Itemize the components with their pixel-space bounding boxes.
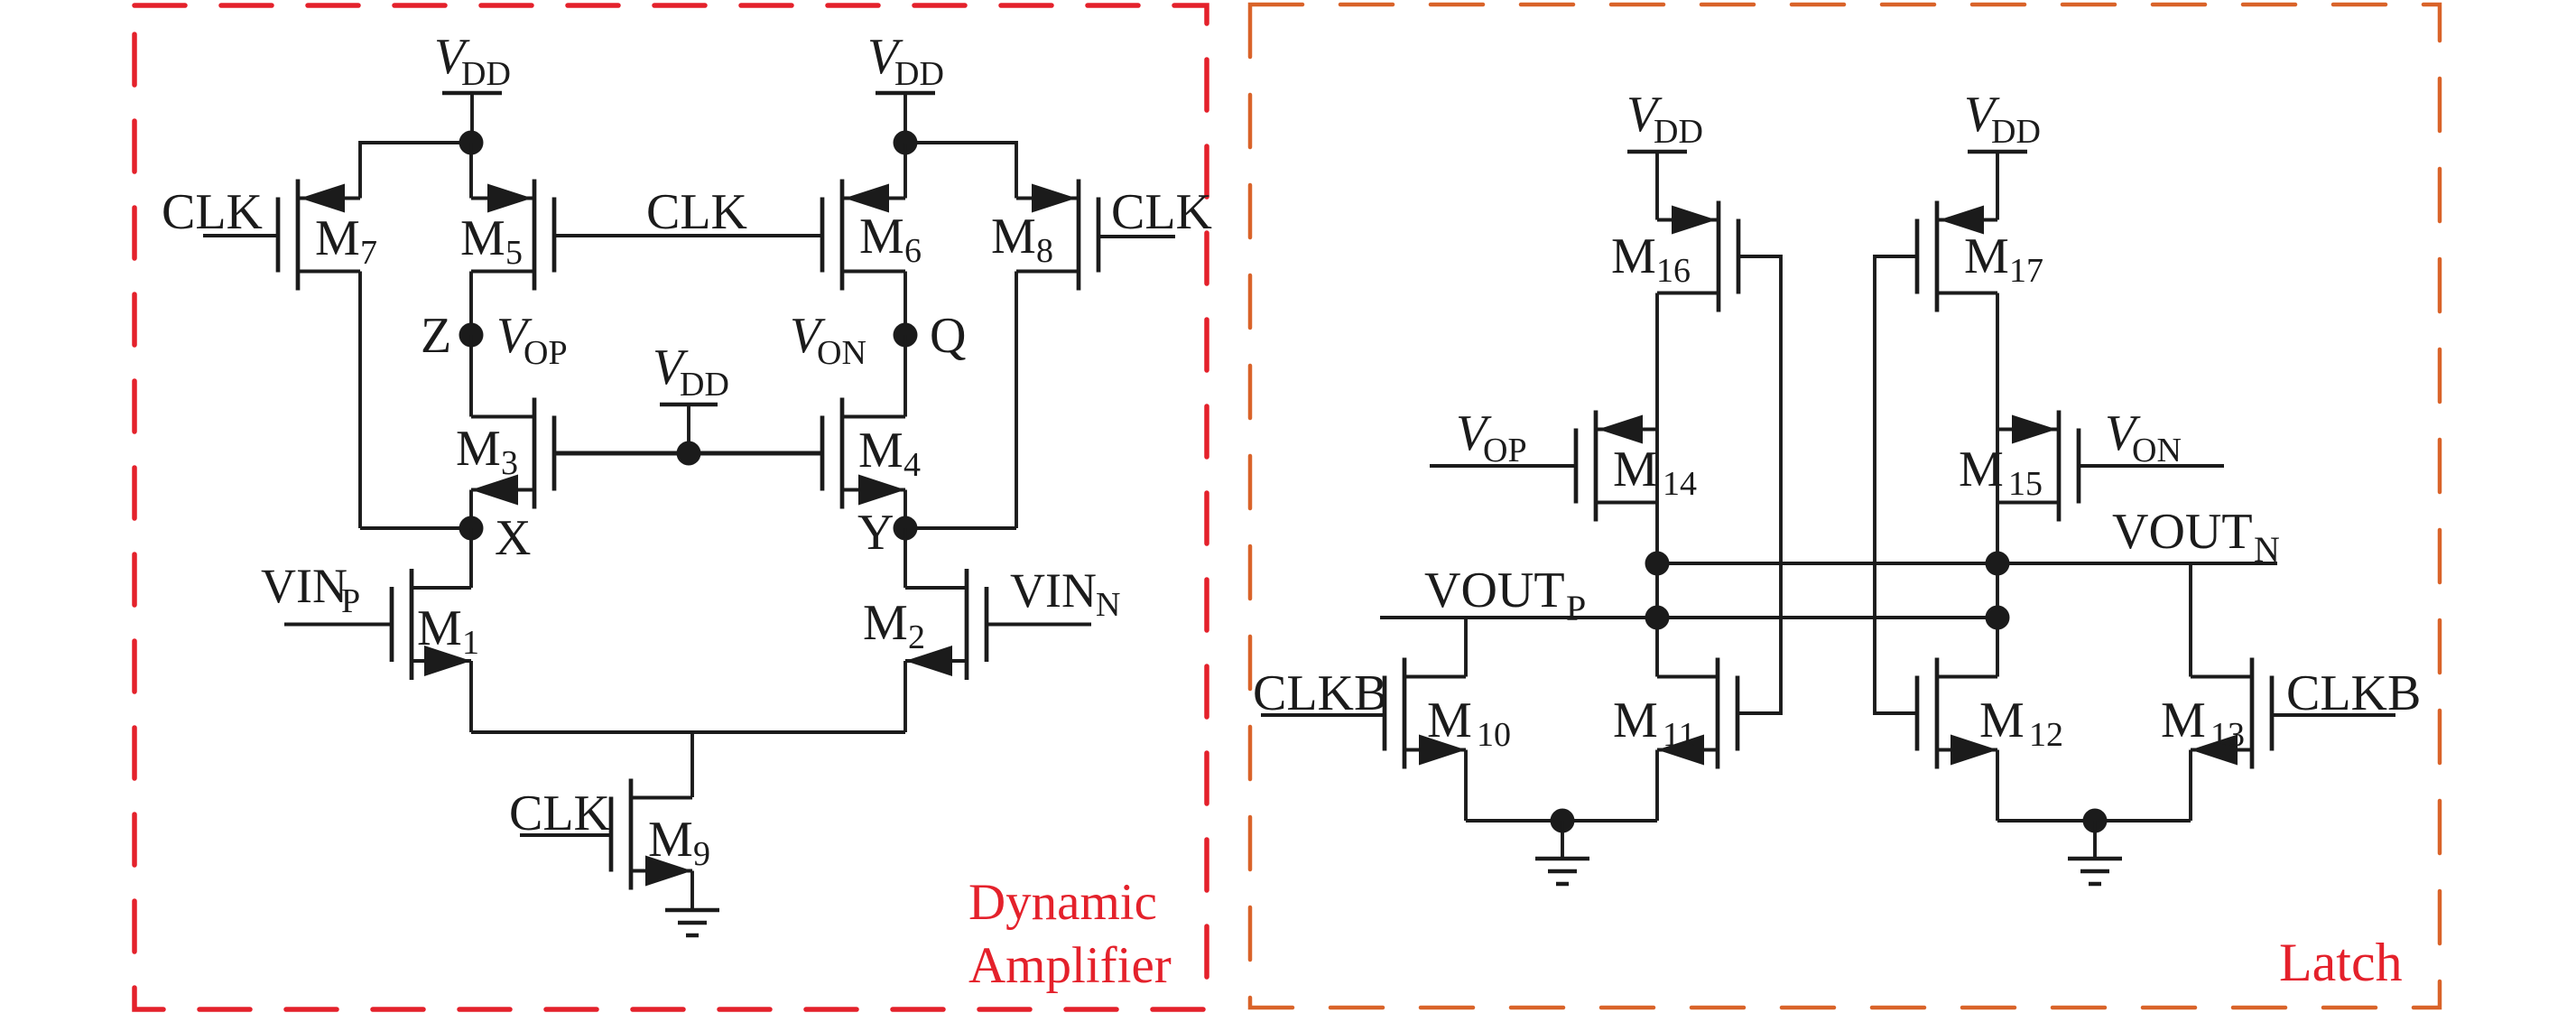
wire M5 gate to M6 gate [554, 234, 822, 237]
svg-text:ON: ON [817, 334, 866, 372]
transistor M14 [1576, 411, 1657, 522]
svg-text:N: N [1096, 586, 1120, 624]
svg-text:11: 11 [1663, 716, 1696, 754]
label VDD (top right) [867, 29, 944, 93]
transistor M3 [471, 398, 554, 509]
transistor M2 [905, 569, 987, 680]
svg-text:M: M [2161, 692, 2206, 748]
wire node X horizontal [360, 526, 471, 530]
svg-text:M: M [648, 812, 693, 868]
label M12 [1979, 692, 2063, 754]
wire M12 source to right tail [1996, 750, 1999, 822]
label M6 [859, 209, 922, 270]
wire M17 gate to cross wire [1875, 256, 1917, 713]
svg-text:M: M [859, 209, 904, 265]
label M11 [1613, 692, 1696, 754]
label VDD (latch left) [1626, 87, 1703, 151]
wire M4 source to node Y [903, 490, 907, 529]
wire right tail rail [1997, 819, 2191, 822]
svg-text:8: 8 [1036, 232, 1053, 270]
transistor M5 [471, 180, 554, 291]
wire VDD-right to M6 source [903, 143, 907, 199]
label M17 [1964, 228, 2043, 290]
label VDD (middle) [653, 339, 729, 404]
wire M11 source to left tail [1655, 750, 1659, 822]
wire M17 drain down [1996, 293, 1999, 677]
wire right tail to ground [2093, 821, 2097, 859]
wire M13 gate to CLKB lead [2272, 713, 2395, 717]
svg-text:Y: Y [857, 505, 894, 561]
label VOP [496, 308, 568, 372]
wire M2 source to tail [903, 661, 907, 732]
svg-text:6: 6 [904, 232, 922, 270]
node VOUTN-right junction [1986, 552, 2010, 576]
wire VINP lead to M1 gate [284, 623, 392, 627]
label VON (M15 gate) [2105, 405, 2182, 469]
node Z junction [459, 323, 484, 348]
wire M10 source to left tail [1464, 750, 1468, 822]
svg-text:P: P [1566, 588, 1586, 628]
svg-text:M: M [456, 421, 501, 477]
svg-text:14: 14 [1663, 465, 1697, 503]
ground (M12 M13 sources) [2068, 859, 2122, 884]
svg-text:10: 10 [1477, 716, 1511, 754]
transistor M10 [1385, 658, 1466, 769]
wire M16 drain down [1655, 293, 1659, 677]
svg-text:OP: OP [1483, 432, 1527, 469]
wire VOUTN rail [1657, 562, 2277, 565]
svg-text:1: 1 [462, 624, 479, 662]
svg-text:DD: DD [894, 55, 944, 93]
svg-text:VIN: VIN [261, 559, 347, 613]
wire M3 gate to M4 gate [554, 451, 822, 456]
wire VOUTP rail [1380, 616, 1997, 619]
label VDD (top left) [434, 29, 511, 93]
wire left tail rail [1466, 819, 1657, 822]
wire M6 drain to node Q [903, 272, 907, 336]
svg-text:VOUT: VOUT [1424, 562, 1565, 618]
wire node Q to M4 drain [903, 335, 907, 417]
svg-text:CLK: CLK [646, 184, 747, 240]
power VDD (middle) [660, 404, 718, 453]
label M13 [2161, 692, 2245, 754]
svg-text:DD: DD [461, 55, 511, 93]
wire tail rail [471, 730, 905, 734]
label VON [790, 308, 866, 372]
node Q junction [894, 323, 918, 348]
label M10 [1427, 692, 1511, 754]
label M9 [648, 812, 710, 873]
svg-text:M: M [315, 210, 360, 266]
wire CLK lead to M7 gate [203, 234, 278, 237]
svg-text:M: M [460, 210, 505, 266]
dashed box Dynamic Amplifier [134, 5, 1207, 1009]
svg-text:M: M [858, 423, 903, 479]
svg-text:M: M [1964, 228, 2009, 284]
wire M13 source to right tail [2189, 750, 2192, 822]
svg-text:VOUT: VOUT [2112, 504, 2253, 560]
label M14 [1613, 441, 1697, 503]
svg-text:9: 9 [693, 835, 710, 873]
label M15 [1959, 441, 2043, 503]
svg-text:16: 16 [1656, 252, 1691, 290]
wire left tail to ground [1561, 821, 1564, 859]
label M7 [315, 210, 377, 272]
transistor M7 [278, 180, 360, 291]
wire node X to M1 drain [469, 528, 473, 588]
svg-text:DD: DD [1654, 113, 1703, 151]
node VOUTN-left junction [1645, 552, 1670, 576]
svg-text:Z: Z [421, 308, 451, 364]
wire M7 source down to node X [358, 272, 362, 529]
svg-text:CLK: CLK [509, 785, 610, 841]
label M8 [991, 209, 1053, 270]
transistor M15 [1997, 411, 2079, 522]
wire M2 gate to VINN lead [987, 623, 1091, 627]
svg-text:Dynamic: Dynamic [968, 874, 1157, 931]
ground (M9 source) [665, 910, 719, 935]
wire M8 source down to node Y [1015, 272, 1018, 529]
svg-text:M: M [1613, 441, 1658, 497]
wire M16 gate to cross wire [1737, 256, 1781, 713]
transistor M6 [822, 180, 905, 291]
svg-text:M: M [1959, 441, 2004, 497]
svg-text:17: 17 [2009, 252, 2043, 290]
node VOUTP-right junction [1986, 606, 2010, 630]
svg-text:Latch: Latch [2279, 933, 2403, 992]
node VDD-left junction [459, 131, 484, 155]
transistor M4 [822, 398, 905, 509]
transistor M13 [2191, 658, 2272, 769]
svg-text:12: 12 [2029, 716, 2063, 754]
label M5 [460, 210, 523, 272]
svg-text:M: M [1979, 692, 2025, 748]
svg-text:M: M [863, 595, 908, 651]
wire M3 source to node X [469, 490, 473, 529]
svg-text:4: 4 [903, 446, 921, 484]
svg-text:CLKB: CLKB [2286, 665, 2421, 721]
svg-text:ON: ON [2132, 432, 2182, 469]
power VDD (top left) [442, 93, 502, 143]
wire VOP lead to M14 gate [1430, 464, 1576, 468]
transistor M8 [1016, 180, 1098, 291]
ground (M10 M11 sources) [1535, 859, 1589, 884]
svg-text:DD: DD [680, 366, 729, 404]
svg-text:CLK: CLK [162, 184, 263, 240]
svg-text:M: M [417, 600, 462, 656]
svg-text:7: 7 [360, 234, 377, 272]
label M1 [417, 600, 479, 662]
svg-text:3: 3 [501, 444, 518, 482]
wire M1 source to tail [469, 661, 473, 732]
svg-text:N: N [2254, 529, 2280, 570]
transistor M9 [611, 779, 692, 890]
node Y junction [894, 516, 918, 541]
label M4 [858, 423, 921, 484]
svg-text:M: M [1613, 692, 1658, 748]
wire node Y horizontal [905, 526, 1016, 530]
wire M9 source to ground [690, 871, 694, 911]
svg-text:CLK: CLK [1111, 184, 1212, 240]
svg-text:Q: Q [930, 308, 966, 364]
wire node Y to M2 drain [903, 528, 907, 588]
svg-text:OP: OP [524, 334, 568, 372]
wire VDD-left to M5 source [469, 143, 473, 199]
svg-text:CLKB: CLKB [1253, 665, 1387, 721]
label VOUTP [1424, 562, 1586, 628]
power VDD (latch left) [1627, 152, 1687, 220]
node M3-M4 gate junction [677, 441, 701, 466]
wire CLK lead to M8 gate [1098, 235, 1175, 238]
svg-text:M: M [1611, 228, 1656, 284]
node VDD-right junction [894, 131, 918, 155]
node left tail junction [1551, 809, 1575, 833]
wire VDD-right to M8 drain [905, 143, 1016, 199]
wire VOUTN rail to M13 drain [2189, 563, 2192, 677]
power VDD (latch right) [1968, 152, 2027, 220]
svg-text:15: 15 [2008, 465, 2043, 503]
label VDD (latch right) [1964, 87, 2041, 151]
label M16 [1611, 228, 1691, 290]
node X junction [459, 516, 484, 541]
node right tail junction [2083, 809, 2108, 833]
transistor M11 [1657, 658, 1737, 769]
svg-text:VIN: VIN [1010, 563, 1097, 618]
svg-text:5: 5 [505, 234, 523, 272]
svg-text:2: 2 [908, 618, 925, 656]
label M3 [456, 421, 518, 482]
svg-text:X: X [495, 510, 531, 566]
wire CLKB lead to M10 gate [1261, 713, 1385, 717]
svg-text:M: M [991, 209, 1036, 265]
wire CLK lead to M9 gate [520, 833, 611, 837]
svg-text:DD: DD [1991, 113, 2041, 151]
wire M15 gate to VON lead [2079, 464, 2224, 468]
power VDD (top right) [876, 93, 935, 143]
svg-text:13: 13 [2210, 716, 2245, 754]
label VINN [1010, 563, 1120, 624]
transistor M17 [1917, 201, 1997, 312]
svg-text:M: M [1427, 692, 1472, 748]
wire tail to M9 drain [690, 732, 694, 797]
wire VDD-left to M7 drain [360, 143, 471, 199]
wire VOUTP rail to M10 drain [1464, 618, 1468, 677]
label VINP [261, 559, 360, 620]
transistor M16 [1657, 201, 1738, 312]
transistor M12 [1917, 658, 1997, 769]
svg-text:P: P [341, 582, 360, 620]
label M2 [863, 595, 925, 656]
svg-text:Amplifier: Amplifier [968, 937, 1172, 994]
label VOP (M14 gate) [1456, 405, 1527, 469]
dashed box Latch [1250, 5, 2440, 1008]
transistor M1 [392, 569, 471, 680]
node VOUTP-left junction [1645, 606, 1670, 630]
wire M5 drain to node Z [469, 272, 473, 336]
wire node Z to M3 drain [469, 335, 473, 417]
label VOUTN [2112, 504, 2280, 570]
